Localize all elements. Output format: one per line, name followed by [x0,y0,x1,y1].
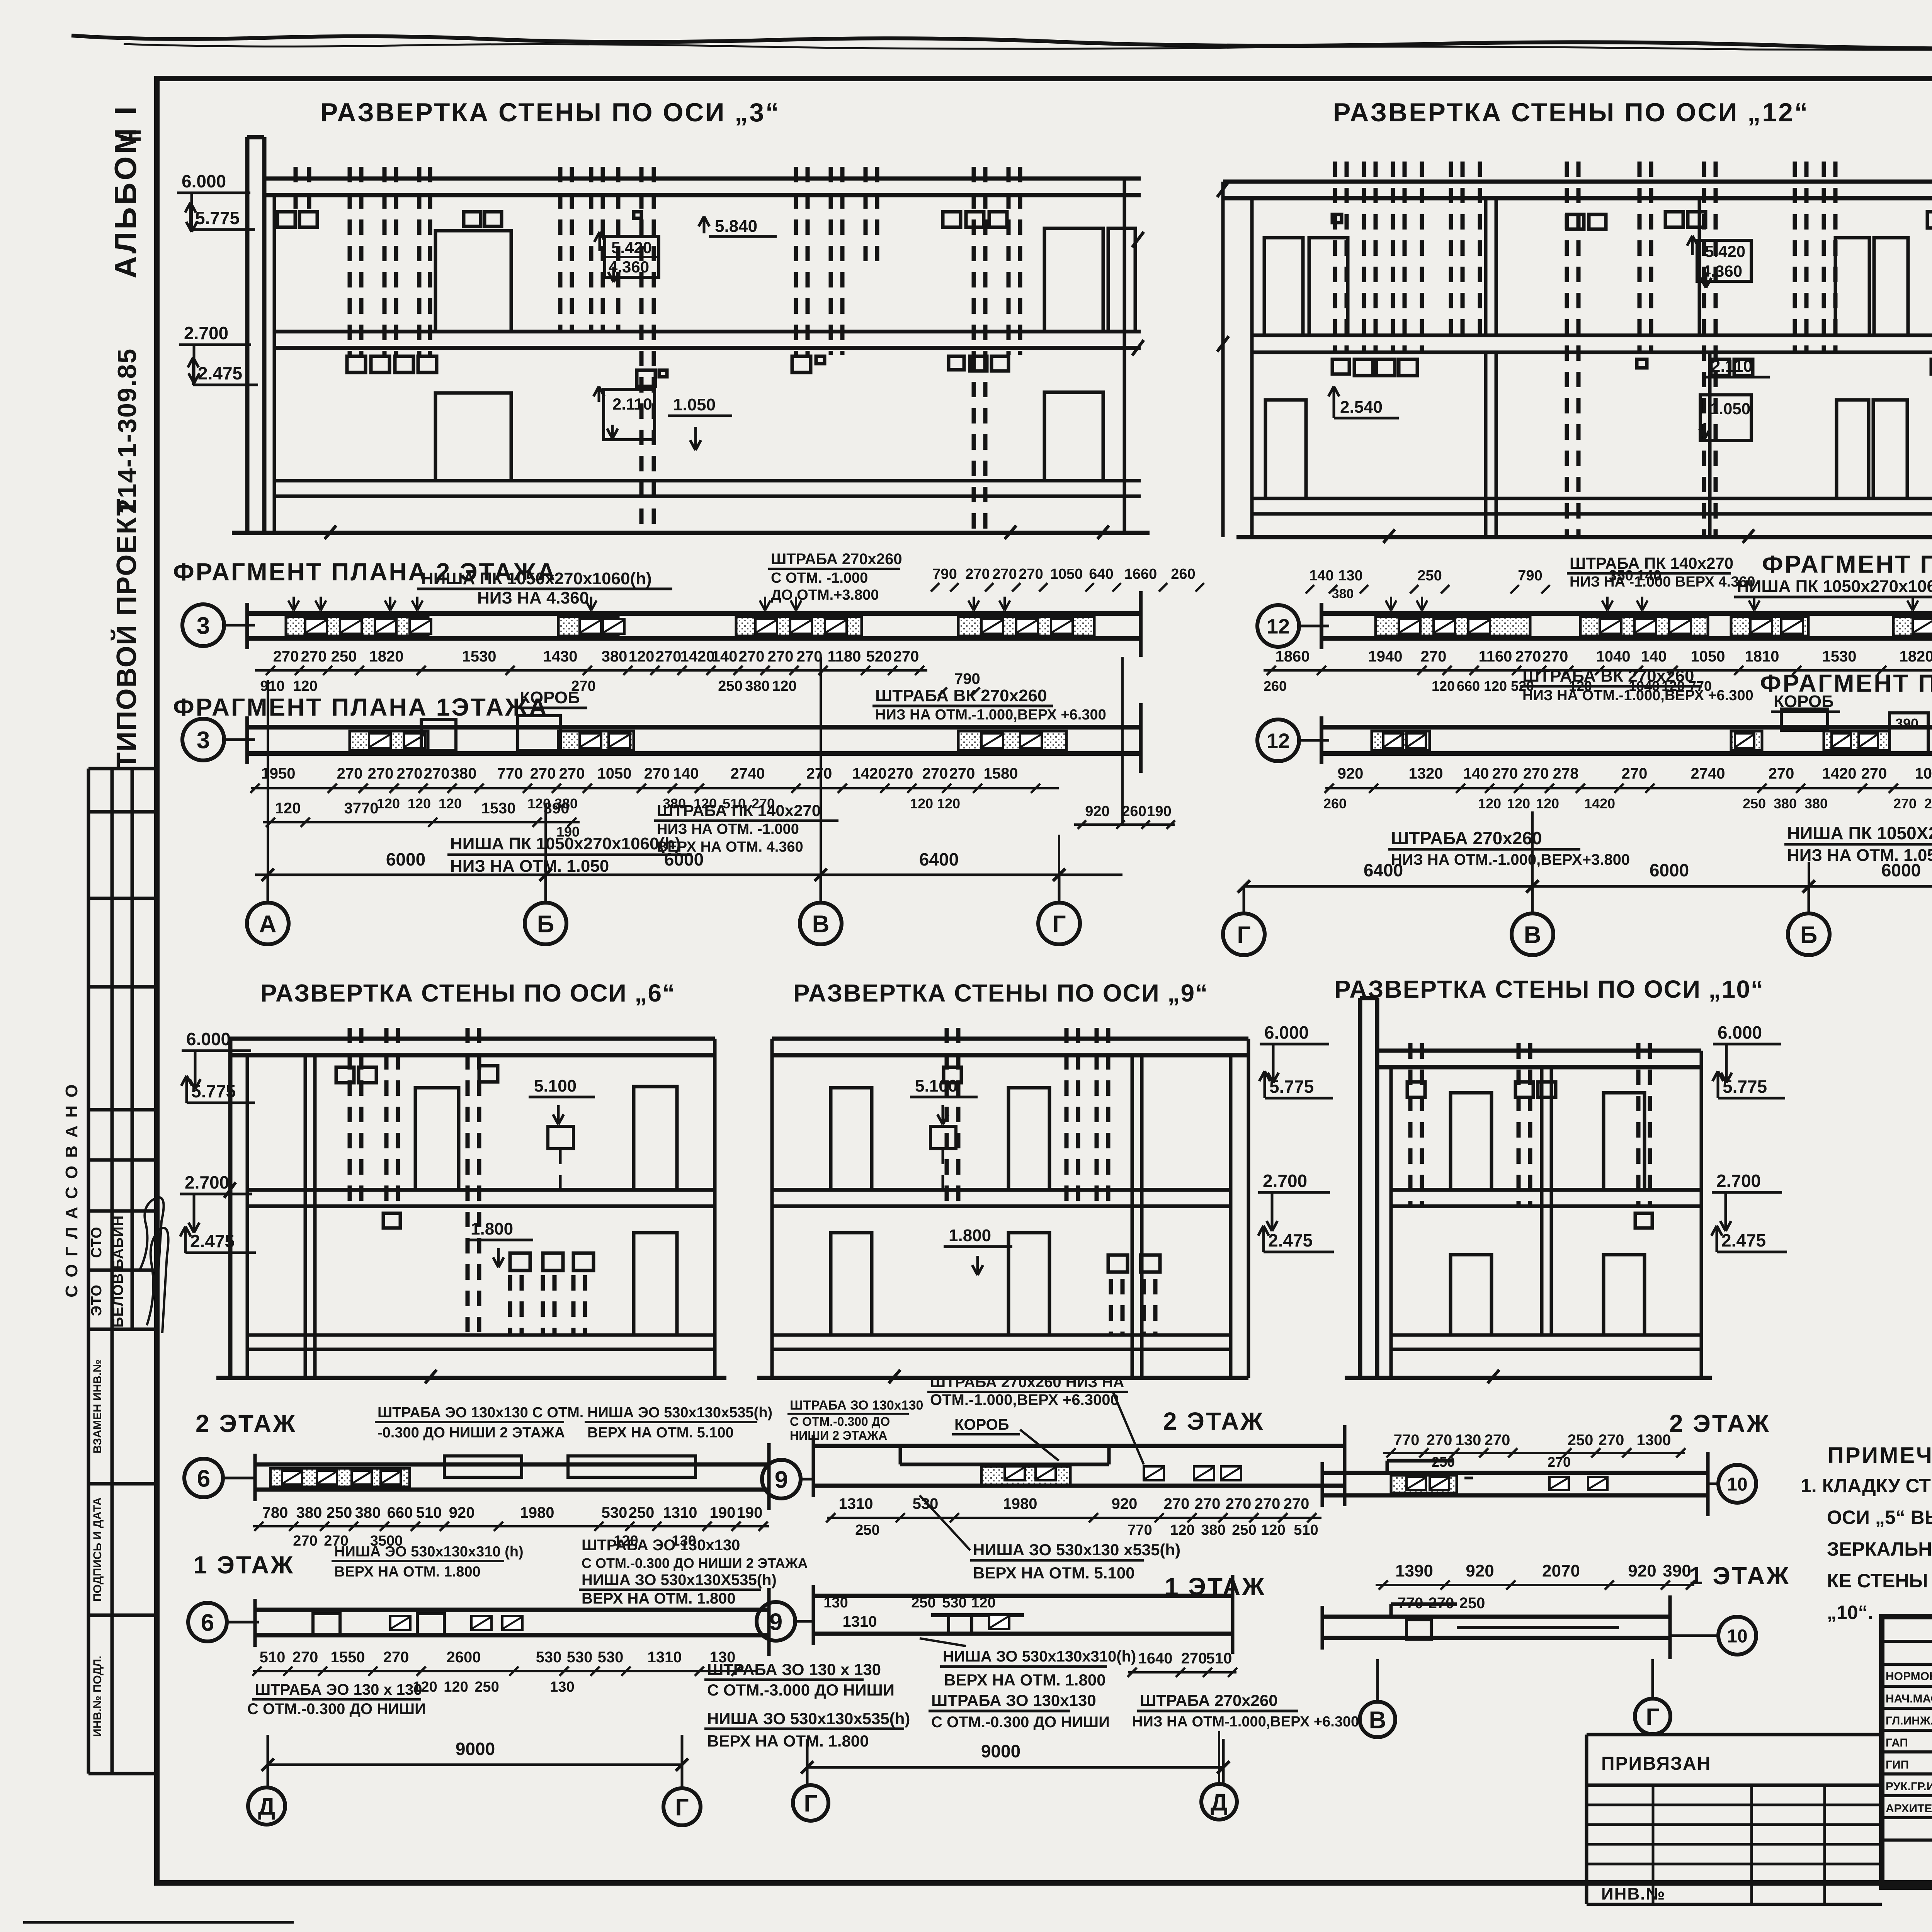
svg-text:ПРИВЯЗАН: ПРИВЯЗАН [1601,1753,1711,1774]
svg-text:НИЗ НА ОТМ.-1.000,ВЕРХ +6.300: НИЗ НА ОТМ.-1.000,ВЕРХ +6.300 [875,707,1106,723]
svg-text:270: 270 [1255,1495,1281,1512]
svg-text:260: 260 [1264,678,1287,694]
svg-text:Б: Б [1800,922,1818,948]
sidebar text soglasovano [62,1083,81,1297]
svg-text:1160: 1160 [1479,648,1512,665]
axis circle 12 upper [1257,605,1329,647]
elevation axis-12 break marks [1217,182,1754,543]
level mark 2.475 axis-10 [1711,1226,1787,1252]
paper edge top [71,36,1932,51]
elevation axis-9 cluster low [1108,1255,1160,1335]
plan dimension chain 1st axis-12 [1323,765,1932,811]
svg-text:270: 270 [644,765,670,782]
svg-text:РАЗВЕРТКА СТЕНЫ ПО ОСИ „10: РАЗВЕРТКА СТЕНЫ ПО ОСИ „10“ [1334,975,1764,1003]
svg-text:ВЕРХ НА ОТМ. 1.800: ВЕРХ НА ОТМ. 1.800 [707,1732,869,1750]
svg-text:270: 270 [1893,796,1917,811]
svg-text:920: 920 [1338,765,1364,782]
elevation axis-12 dash cluster 6 [1711,162,1835,376]
svg-text:НИША ЭО 530х130х310 (h): НИША ЭО 530х130х310 (h) [334,1544,524,1560]
elevation axis-3 window lower-2 [1044,392,1103,481]
svg-text:С ОТМ.-0.300 ДО: С ОТМ.-0.300 ДО [790,1415,890,1429]
plan strip 1st floor axis-12 [1321,703,1932,773]
svg-text:270: 270 [1427,1432,1452,1449]
axis circle G-9 bottom [793,1785,828,1821]
axis circle B [525,903,566,944]
level mark 5.775 axis-3 [185,202,255,230]
svg-text:ШТРАБА 270х260: ШТРАБА 270х260 [1140,1691,1278,1709]
svg-text:Д: Д [258,1793,275,1820]
svg-text:2.700: 2.700 [1263,1171,1307,1191]
label nisha-eo 2et axis-6 [585,1405,772,1441]
sidebar text tipovoy [111,498,142,769]
svg-text:Б: Б [537,911,554,937]
svg-text:120: 120 [1536,796,1559,811]
svg-text:530: 530 [536,1649,562,1666]
label shtraba low axis-9 [704,1660,895,1699]
sidebar stamp table [88,769,157,1774]
level mark 2.700 axis-10 [1712,1171,1782,1231]
svg-text:270: 270 [1523,765,1549,782]
svg-text:2.700: 2.700 [185,1172,229,1192]
svg-text:120: 120 [444,1679,468,1695]
level mark 5.775 axis-10 [1713,1071,1785,1098]
level mark 5.775 axis-9 [1259,1071,1333,1098]
svg-text:6.000: 6.000 [1264,1022,1309,1043]
svg-text:270: 270 [337,765,363,782]
svg-text:6000: 6000 [1650,860,1689,880]
svg-text:3770: 3770 [344,800,379,817]
svg-text:ЗЕРКАЛЬНО КЛАД-: ЗЕРКАЛЬНО КЛАД- [1827,1538,1932,1560]
label shtraba 270 bottom [1132,1691,1359,1783]
svg-text:6.000: 6.000 [1718,1022,1762,1043]
svg-text:270: 270 [383,1649,409,1666]
elevation axis-12 dash cluster 1 [1332,162,1422,376]
title elevation axis-6 [260,979,675,1007]
svg-text:1 ЭТАЖ: 1 ЭТАЖ [1689,1562,1790,1590]
elevation axis-3 window lower-1 [435,393,511,481]
sidebar text podpis [91,1497,104,1602]
svg-text:6000: 6000 [386,849,425,869]
svg-text:С О Г Л А С О В А Н О: С О Г Л А С О В А Н О [62,1083,81,1297]
svg-text:5.775: 5.775 [1723,1077,1767,1097]
svg-text:1530: 1530 [481,800,516,817]
sidebar signature 2 [147,1228,168,1333]
svg-text:380: 380 [1201,1522,1225,1538]
svg-text:1300: 1300 [1637,1432,1671,1449]
elevation axis-3 structure [232,137,1150,533]
svg-text:5.775: 5.775 [1269,1077,1314,1097]
plan dims 2 etazh axis-10 [1383,1432,1685,1470]
svg-text:2.475: 2.475 [198,363,242,383]
svg-text:1310: 1310 [843,1613,877,1630]
svg-text:780: 780 [262,1504,288,1521]
svg-text:270: 270 [530,765,556,782]
svg-text:ВЕРХ НА ОТМ. 1.800: ВЕРХ НА ОТМ. 1.800 [582,1590,736,1607]
plan dimension chain 2nd axis-12 [1264,648,1932,694]
svg-text:НИЗ НА -1.000 ВЕРХ 4.360: НИЗ НА -1.000 ВЕРХ 4.360 [1570,574,1755,590]
svg-text:270: 270 [1164,1495,1190,1512]
svg-text:6.000: 6.000 [186,1029,231,1049]
svg-text:ДО ОТМ.+3.800: ДО ОТМ.+3.800 [771,587,879,603]
svg-text:190: 190 [710,1504,736,1521]
plan dims left lower axis-3 [263,800,580,840]
svg-text:1820: 1820 [369,648,404,665]
svg-text:ФРАГМЕНТ ПЛАНА 1ЭТАЖА: ФРАГМЕНТ ПЛАНА 1ЭТАЖА [173,693,548,721]
svg-text:390: 390 [1663,1561,1691,1580]
svg-text:Г: Г [1237,922,1250,948]
svg-text:1 ЭТАЖ: 1 ЭТАЖ [193,1551,294,1579]
level mark 6.000 axis-3 [177,171,250,232]
svg-text:ШТРАБА ЭО 130 х 130: ШТРАБА ЭО 130 х 130 [255,1681,422,1698]
elevation axis-6 break marks [224,1182,437,1383]
plan dimension chain 1st axis-3 [250,765,1059,811]
svg-text:3: 3 [197,727,210,753]
svg-text:2 ЭТАЖ: 2 ЭТАЖ [1163,1407,1264,1435]
plan label shtraba-vk axis-12 [1520,667,1753,704]
elevation axis-9 windows upper [831,1088,1049,1190]
elevation axis-3 dash cluster 2 [347,167,437,372]
svg-text:270: 270 [1429,1595,1454,1612]
svg-text:380: 380 [1774,796,1797,811]
elevation axis-12 window upper-left [1264,238,1348,335]
svg-text:ШТРАБА 270х260: ШТРАБА 270х260 [771,551,902,568]
plan label shtraba-pk axis-3 [654,801,838,855]
svg-text:3: 3 [197,612,210,639]
svg-text:НИША ПК 1050Х270Х1060: НИША ПК 1050Х270Х1060 [1787,823,1932,843]
svg-text:5.775: 5.775 [195,208,240,228]
title elevation axis-9 [793,979,1208,1007]
svg-text:9: 9 [769,1609,782,1635]
svg-text:2.700: 2.700 [184,323,228,343]
svg-text:530: 530 [942,1595,966,1611]
svg-text:120: 120 [439,796,462,811]
svg-text:В: В [1369,1707,1386,1733]
elevation axis-3 dash cluster 4 [637,167,667,533]
svg-text:НОРМОКОНТР.: НОРМОКОНТР. [1886,1670,1932,1683]
svg-text:6000: 6000 [1881,860,1921,880]
svg-text:1660: 1660 [1124,566,1157,582]
svg-text:ВЕРХ НА ОТМ. 1.800: ВЕРХ НА ОТМ. 1.800 [944,1671,1106,1689]
svg-text:260: 260 [1323,796,1347,811]
elevation axis-3 dash cluster 1 [277,167,317,227]
svg-text:С ОТМ. -1.000: С ОТМ. -1.000 [771,570,868,586]
plan strip 2 etazh axis-9 [813,1425,1345,1506]
svg-text:270: 270 [424,765,450,782]
svg-text:250: 250 [855,1522,879,1538]
svg-text:530: 530 [602,1504,628,1521]
svg-text:1.800: 1.800 [949,1226,991,1245]
level mark 2.475 axis-6 [180,1226,256,1253]
axis circle 10 upper [1708,1465,1756,1503]
plan dims 1 etazh axis-6 [252,1649,757,1695]
svg-text:270: 270 [806,765,832,782]
elevation axis-9 dash cluster 2 [1066,1028,1108,1206]
elevation axis-9 windows lower [831,1233,1049,1335]
svg-text:КОРОБ: КОРОБ [1774,692,1834,711]
svg-text:140: 140 [673,765,699,782]
elevation axis-12 callout 5.420 [1687,236,1751,288]
svg-text:1050: 1050 [1691,648,1725,665]
svg-text:270: 270 [1924,796,1932,811]
elevation axis-10 dash cluster 1 [1407,1043,1425,1206]
privyazan table [1587,1735,1882,1904]
elevation axis-3 callout 2.110 [594,386,655,440]
svg-text:НИЗ НА ОТМ-1.000,ВЕРХ +6.300: НИЗ НА ОТМ-1.000,ВЕРХ +6.300 [1132,1714,1359,1730]
svg-text:1420: 1420 [680,648,715,665]
svg-text:ГЛ.ИНЖ.М.: ГЛ.ИНЖ.М. [1886,1714,1932,1727]
svg-text:790: 790 [1518,568,1542,584]
svg-text:2070: 2070 [1542,1561,1580,1580]
svg-text:НИША ЗО 530х130 х535(h): НИША ЗО 530х130 х535(h) [973,1541,1180,1559]
svg-text:ШТРАБА 270х260: ШТРАБА 270х260 [1391,828,1542,848]
svg-text:530: 530 [598,1649,624,1666]
svg-text:1050: 1050 [1915,765,1932,782]
svg-text:С ОТМ.-0.300 ДО НИШИ: С ОТМ.-0.300 ДО НИШИ [247,1701,426,1718]
label shtraba 270x260 axis-9 [927,1374,1144,1464]
note primechanie text [1801,1475,1932,1623]
label shtraba-eo 2et axis-6 [375,1405,583,1441]
svg-text:270: 270 [1861,765,1887,782]
elevation axis-3 squares top mid [464,212,641,226]
svg-text:1420: 1420 [852,765,887,782]
svg-text:1530: 1530 [462,648,497,665]
plan strip 1 etazh axis-10 [1322,1595,1670,1659]
svg-text:770: 770 [1394,1432,1420,1449]
elevation axis-3 callout 5.840 [699,216,777,236]
elevation axis-3 window upper-2 [1044,228,1135,332]
elevation axis-9 callout 1.800 [944,1226,1012,1275]
svg-text:1580: 1580 [984,765,1018,782]
svg-text:120: 120 [1432,678,1455,694]
level mark 2.700 axis-9 [1258,1171,1330,1231]
svg-text:270: 270 [273,648,299,665]
svg-text:270: 270 [1421,648,1447,665]
svg-text:СТО: СТО [88,1226,105,1258]
svg-text:270: 270 [1515,648,1541,665]
sidebar text belov [110,1273,126,1327]
svg-text:380: 380 [745,678,769,694]
svg-text:-0.300 ДО НИШИ 2 ЭТАЖА: -0.300 ДО НИШИ 2 ЭТАЖА [378,1425,565,1441]
svg-text:250: 250 [629,1504,655,1521]
svg-text:510: 510 [260,1649,286,1666]
svg-text:9000: 9000 [456,1739,495,1759]
svg-text:НИША ПК 1050х270х1060(h): НИША ПК 1050х270х1060(h) [450,834,681,853]
svg-text:770: 770 [1128,1522,1152,1538]
svg-text:С ОТМ.-0.300 ДО НИШИ: С ОТМ.-0.300 ДО НИШИ [931,1714,1110,1731]
svg-text:ТИПОВОЙ ПРОЕКТ: ТИПОВОЙ ПРОЕКТ [111,498,142,769]
svg-text:ИНВ.№ ПОДЛ.: ИНВ.№ ПОДЛ. [91,1656,104,1737]
svg-text:„10“.: „10“. [1827,1602,1873,1623]
title elevation axis-12 [1333,98,1809,127]
svg-text:1. КЛАДКУ СТЕНЫ ПО: 1. КЛАДКУ СТЕНЫ ПО [1801,1475,1932,1497]
svg-text:270: 270 [768,648,794,665]
svg-text:640: 640 [1089,566,1113,582]
plan title 2nd floor axis-12 [1762,550,1932,578]
frame top outer line [157,40,1932,41]
svg-text:4.360: 4.360 [1702,262,1742,280]
svg-text:ШТРАБА ЭО 130х130: ШТРАБА ЭО 130х130 [582,1537,740,1554]
svg-text:130: 130 [1456,1432,1481,1449]
elevation axis-10 dash cluster 2 [1515,1043,1556,1206]
svg-text:140: 140 [1463,765,1489,782]
svg-text:270: 270 [559,765,585,782]
svg-text:250: 250 [327,1504,352,1521]
svg-text:250: 250 [1459,1595,1485,1612]
axis circle G-12 [1223,913,1265,955]
svg-text:6: 6 [201,1609,214,1636]
level mark 2.700 axis-3 [179,323,251,383]
svg-text:270: 270 [922,765,948,782]
level mark 5.775 axis-6 [181,1076,255,1103]
svg-text:РАЗВЕРТКА СТЕНЫ ПО ОСИ: РАЗВЕРТКА СТЕНЫ ПО ОСИ „12“ [1333,98,1809,127]
svg-text:2600: 2600 [447,1649,481,1666]
svg-text:120: 120 [772,678,796,694]
svg-text:1320: 1320 [1409,765,1443,782]
svg-text:270: 270 [992,566,1017,582]
svg-text:ПОДПИСЬ И ДАТА: ПОДПИСЬ И ДАТА [91,1497,104,1602]
svg-text:1420: 1420 [1584,796,1615,811]
elevation axis-9 structure [757,1039,1248,1378]
main dimension line axis-3 group [255,657,1122,903]
label shtraba mid axis-9 [929,1691,1110,1731]
plan strip 2 etazh axis-6 [255,1443,769,1510]
elevation axis-6 callout 1.800 [466,1219,533,1267]
svg-text:ЭТО: ЭТО [88,1284,105,1316]
svg-text:НАЧ.МАСТ. 1: НАЧ.МАСТ. 1 [1886,1692,1932,1705]
svg-text:270: 270 [1548,1454,1571,1470]
level mark 6.000 axis-9 [1260,1022,1329,1083]
svg-text:1980: 1980 [520,1504,554,1521]
svg-text:9: 9 [775,1466,788,1493]
svg-text:510: 510 [1294,1522,1318,1538]
svg-text:270: 270 [1195,1495,1221,1512]
svg-text:ШТРАБА 270х260 НИЗ НА: ШТРАБА 270х260 НИЗ НА [930,1374,1124,1391]
svg-text:2.475: 2.475 [1721,1230,1766,1250]
svg-text:Г: Г [804,1790,817,1817]
svg-text:НИЗ НА ОТМ.-1.000,ВЕРХ+3.800: НИЗ НА ОТМ.-1.000,ВЕРХ+3.800 [1391,851,1630,868]
elevation axis-9 break marks [889,1370,900,1383]
svg-text:БАБИН: БАБИН [110,1215,126,1269]
svg-text:250: 250 [718,678,742,694]
svg-text:140: 140 [712,648,738,665]
svg-text:260: 260 [1171,566,1195,582]
svg-text:250: 250 [1232,1522,1256,1538]
svg-text:1430: 1430 [543,648,578,665]
svg-text:1810: 1810 [1745,648,1779,665]
svg-text:920: 920 [449,1504,475,1521]
svg-text:270: 270 [368,765,394,782]
svg-text:920: 920 [1628,1561,1656,1580]
svg-text:ВЗАМЕН ИНВ.№: ВЗАМЕН ИНВ.№ [91,1359,104,1453]
label shtraba-eo small axis-9 [787,1398,923,1442]
svg-text:2740: 2740 [731,765,765,782]
svg-text:НИША ЗО 530х130х310(h): НИША ЗО 530х130х310(h) [943,1648,1136,1665]
svg-text:214-1-309.85: 214-1-309.85 [112,348,142,514]
svg-text:380: 380 [1804,796,1828,811]
svg-text:6000: 6000 [664,849,704,869]
axis circle G-10 bottom [1635,1659,1670,1734]
svg-text:1820: 1820 [1900,648,1932,665]
svg-text:ВЕРХ НА ОТМ. 1.800: ВЕРХ НА ОТМ. 1.800 [334,1564,481,1580]
svg-text:ШТРАБА ЭО 130х130 С ОТМ.: ШТРАБА ЭО 130х130 С ОТМ. [378,1405,583,1421]
title elevation axis-3 [320,98,780,127]
svg-text:Г: Г [1646,1704,1659,1730]
svg-text:ФРАГМЕНТ ПЛАНА 2 ЭТАЖА: ФРАГМЕНТ ПЛАНА 2 ЭТАЖА [1762,550,1932,578]
svg-text:130: 130 [1338,568,1362,584]
svg-text:КОРОБ: КОРОБ [520,688,580,707]
svg-text:ГАП: ГАП [1886,1736,1908,1749]
axis circle 9 upper [762,1460,813,1498]
svg-text:2 ЭТАЖ: 2 ЭТАЖ [1669,1410,1770,1437]
dimension 9000 axis-9 [801,1739,1230,1785]
svg-text:9000: 9000 [981,1741,1020,1761]
svg-text:ШТРАБА ВК 270х260: ШТРАБА ВК 270х260 [1522,667,1694,685]
level mark 6.000 axis-10 [1713,1022,1781,1083]
svg-text:270: 270 [656,648,682,665]
sidebar signature 1 [139,1197,164,1283]
svg-text:1.050: 1.050 [1710,400,1750,418]
svg-text:2.110: 2.110 [1711,357,1753,376]
svg-text:920: 920 [1112,1495,1138,1512]
svg-text:380: 380 [355,1504,381,1521]
elevation axis-12 window upper-right [1835,238,1908,335]
svg-text:270: 270 [397,765,423,782]
svg-text:140: 140 [1309,568,1333,584]
svg-text:270: 270 [1543,648,1568,665]
svg-text:Г: Г [675,1794,689,1821]
svg-text:2.700: 2.700 [1716,1171,1761,1191]
svg-text:5.420: 5.420 [611,238,652,257]
svg-text:660: 660 [387,1504,413,1521]
svg-text:А: А [259,911,277,937]
svg-text:270: 270 [949,765,975,782]
svg-text:1050: 1050 [1050,566,1083,582]
svg-text:270: 270 [1769,765,1794,782]
axis circle V-10 bottom [1360,1659,1395,1737]
axis circle V [800,903,842,944]
svg-text:770: 770 [497,765,523,782]
svg-text:270: 270 [293,1649,318,1666]
svg-text:НИША ЭО 530х130х535(h): НИША ЭО 530х130х535(h) [587,1405,772,1421]
plan strip 1 etazh axis-9 [813,1575,1233,1654]
svg-text:КЕ СТЕНЫ ПО ОСИ: КЕ СТЕНЫ ПО ОСИ [1827,1570,1932,1592]
axis circle 3 lower [182,719,255,760]
svg-text:140: 140 [1641,648,1667,665]
inv number text [1601,1884,1665,1903]
elevation axis-6 cluster low [510,1253,594,1335]
svg-text:250: 250 [911,1595,935,1611]
svg-text:270: 270 [1226,1495,1252,1512]
svg-text:390: 390 [1895,716,1918,731]
paper edge bottom [23,1922,1932,1932]
svg-text:ШТРАБА ВК 270х260: ШТРАБА ВК 270х260 [875,686,1047,705]
svg-text:120: 120 [1507,796,1530,811]
svg-text:270: 270 [1284,1495,1310,1512]
elevation axis-3 dash cluster 7 [943,167,1020,371]
svg-text:250: 250 [1743,796,1766,811]
svg-text:6: 6 [197,1465,210,1492]
svg-text:Г: Г [1052,911,1066,937]
svg-text:270: 270 [797,648,823,665]
elevation axis-9 callout 5.100 [910,1077,978,1190]
sidebar mark I-beam [121,132,141,139]
plan dims 2 etazh axis-6 [253,1504,769,1549]
svg-text:ШТРАБА ПК 140х270: ШТРАБА ПК 140х270 [1570,554,1733,572]
svg-text:250: 250 [1568,1432,1594,1449]
svg-text:ШТРАБА ЗО 130х130: ШТРАБА ЗО 130х130 [790,1398,923,1413]
elevation axis-3 callout 5.420 [594,232,659,282]
svg-text:260: 260 [1122,803,1146,820]
